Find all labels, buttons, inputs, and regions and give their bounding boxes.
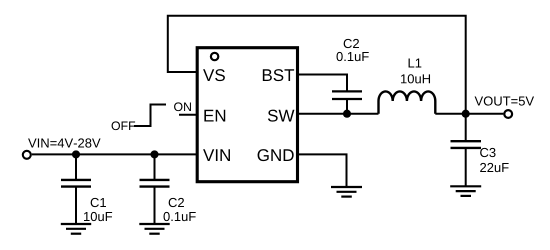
pin label VS <box>203 69 225 81</box>
wire inductor to VOUT terminal <box>435 113 503 115</box>
pin label GND <box>258 149 294 161</box>
terminal VOUT <box>504 110 512 118</box>
pin label EN <box>204 110 225 122</box>
label 0.1uF <box>337 52 369 61</box>
wire EN stub <box>179 114 197 116</box>
capacitor C2 (bootstrap) <box>332 91 362 113</box>
label C2 <box>344 39 359 48</box>
ground (C3) <box>450 186 481 196</box>
pin label BST <box>263 69 294 81</box>
node junction C1 <box>72 150 80 158</box>
inductor L1 <box>379 91 436 113</box>
label C3 <box>480 148 495 157</box>
label 22uF <box>480 163 508 172</box>
wire GND pin to ground <box>297 154 347 187</box>
label OFF <box>112 121 136 130</box>
wire VIN input rail <box>32 153 197 155</box>
label VOUT=5V <box>475 96 534 105</box>
ground (C1) <box>61 224 91 234</box>
label ON <box>174 102 191 111</box>
label L1 <box>409 59 422 68</box>
wire SW to inductor <box>297 113 379 115</box>
label C1 <box>91 198 106 207</box>
capacitor C3 <box>451 114 482 187</box>
label C2 <box>169 198 184 207</box>
ground (GND pin) <box>331 187 362 197</box>
capacitor C1 <box>61 154 91 224</box>
pin 1 indicator <box>211 53 218 60</box>
label VIN=4V-28V <box>28 138 101 147</box>
capacitor C2 (input) <box>140 154 170 224</box>
pin label VIN <box>203 149 230 161</box>
pin label SW <box>268 110 295 122</box>
ground (C2 input) <box>139 224 169 234</box>
label 10uH <box>401 74 430 83</box>
node junction C2 <box>150 150 158 158</box>
label 0.1uF <box>164 212 196 221</box>
op-amp U1 (regulator IC body) <box>197 48 297 182</box>
label 10uF <box>84 212 112 221</box>
node junction VOUT <box>462 110 470 118</box>
wire VS feedback loop (VS pin up over top to VOUT node) <box>168 16 466 114</box>
wire BST to C2 <box>297 75 347 92</box>
terminal VIN <box>23 151 31 159</box>
node junction SW/C2 <box>343 110 351 118</box>
switch ON/OFF on EN <box>134 105 166 127</box>
